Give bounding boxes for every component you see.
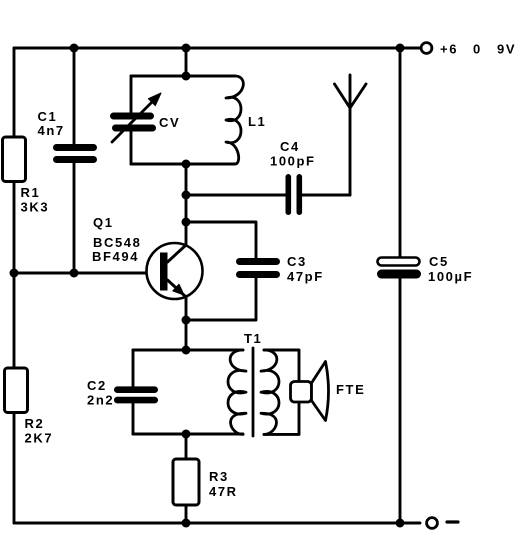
- svg-text:BC548: BC548: [93, 235, 141, 250]
- label Q1 BC548 BF494: [92, 215, 141, 264]
- node C3 branch junction: [182, 218, 191, 227]
- wire tank to top rail: [185, 48, 188, 76]
- wire C1 branch (top rail to base wire): [73, 48, 76, 273]
- speaker FTE cone: [312, 362, 329, 421]
- svg-text:C4: C4: [280, 139, 300, 154]
- transformer T1 secondary: [261, 350, 279, 434]
- terminal - (negative supply): [427, 518, 438, 529]
- label C1 4n7: [38, 109, 65, 138]
- capacitor C4: [286, 174, 303, 215]
- label +6 0 9V: [440, 42, 516, 57]
- node tank top junction: [182, 72, 191, 81]
- wire left rail: [13, 48, 16, 523]
- label C2 2n2: [87, 378, 114, 408]
- svg-text:4n7: 4n7: [38, 123, 65, 138]
- node box bottom junction: [182, 430, 191, 439]
- wire C5 branch bottom: [399, 279, 402, 524]
- capacitor CV (variable): [110, 93, 161, 142]
- wire C5 branch top: [399, 48, 402, 258]
- wire tank box bottom: [131, 163, 235, 166]
- wire base (left rail to Q1 base): [14, 272, 160, 275]
- svg-text:R2: R2: [25, 416, 45, 431]
- antenna: [335, 75, 367, 195]
- terminal + (positive supply): [421, 43, 432, 54]
- wire C4 branch: [186, 194, 350, 197]
- svg-text:47pF: 47pF: [287, 269, 324, 284]
- svg-text:C3: C3: [287, 254, 307, 269]
- label C4 100pF: [270, 139, 316, 169]
- label T1: [244, 331, 262, 346]
- transformer T1 core: [252, 348, 255, 436]
- svg-text:3K3: 3K3: [21, 200, 50, 215]
- svg-text:2K7: 2K7: [25, 431, 54, 446]
- svg-text:100pF: 100pF: [270, 154, 316, 169]
- resistor R2: [5, 368, 28, 413]
- wire R3 branch: [185, 434, 188, 523]
- svg-text:2n2: 2n2: [87, 393, 114, 408]
- resistor R3: [173, 459, 199, 505]
- capacitor C1: [53, 144, 97, 163]
- svg-text:0: 0: [473, 42, 482, 57]
- label R1 3K3: [21, 185, 50, 215]
- wire tank box top: [131, 75, 235, 78]
- svg-text:+6: +6: [440, 42, 458, 57]
- wire C2/T1 box top: [133, 349, 243, 352]
- node C1-base junction: [70, 269, 79, 278]
- node C5-toprail junction: [396, 44, 405, 53]
- speaker FTE driver: [291, 382, 312, 403]
- capacitor C3: [236, 258, 280, 278]
- svg-text:T1: T1: [244, 331, 262, 346]
- wire secondary bottom: [264, 402, 299, 434]
- svg-text:C1: C1: [38, 109, 58, 124]
- node C4 branch junction: [182, 191, 191, 200]
- label R2 2K7: [25, 416, 54, 446]
- svg-text:CV: CV: [159, 115, 180, 130]
- wire tank box left: [130, 76, 133, 164]
- transformer T1 primary: [228, 350, 246, 434]
- svg-text:L1: L1: [248, 114, 266, 129]
- node C1-toprail junction: [70, 44, 79, 53]
- node tank-toprail junction: [182, 44, 191, 53]
- node base-left junction: [10, 269, 19, 278]
- svg-text:R3: R3: [209, 469, 229, 484]
- svg-text:9V: 9V: [497, 42, 516, 57]
- svg-text:FTE: FTE: [336, 382, 365, 397]
- label FTE: [336, 382, 365, 397]
- svg-text:47R: 47R: [209, 484, 238, 499]
- node tank bottom junction: [182, 160, 191, 169]
- wire C3 top branch: [186, 222, 256, 258]
- capacitor C5 (electrolytic): [377, 258, 421, 279]
- label C3 47pF: [287, 254, 324, 284]
- wire bottom rail: [14, 522, 420, 525]
- wire C2/T1 box left: [132, 350, 135, 434]
- svg-text:Q1: Q1: [93, 215, 114, 230]
- label L1: [248, 114, 266, 129]
- svg-text:BF494: BF494: [92, 249, 139, 264]
- node box top junction: [182, 346, 191, 355]
- svg-text:C5: C5: [429, 254, 449, 269]
- node C5 bottom junction: [396, 519, 405, 528]
- node R3 bottom junction: [182, 519, 191, 528]
- wire C2/T1 box bottom: [133, 433, 243, 436]
- resistor R1: [3, 137, 26, 182]
- wire C3 bottom branch: [186, 278, 256, 320]
- label CV: [159, 115, 180, 130]
- wire emitter spine: [185, 297, 188, 350]
- capacitor C2: [114, 386, 158, 403]
- node emitter-C3 junction: [182, 316, 191, 325]
- wire collector spine: [168, 164, 187, 262]
- wire top supply rail: [14, 47, 420, 50]
- svg-text:100µF: 100µF: [428, 269, 473, 284]
- label C5 100uF: [428, 254, 473, 284]
- wire secondary top: [264, 350, 299, 382]
- svg-text:R1: R1: [21, 185, 41, 200]
- transistor Q1: [147, 243, 203, 299]
- label R3 47R: [209, 469, 238, 499]
- label minus dash: [447, 520, 458, 523]
- inductor L1: [226, 76, 243, 164]
- svg-text:C2: C2: [87, 378, 107, 393]
